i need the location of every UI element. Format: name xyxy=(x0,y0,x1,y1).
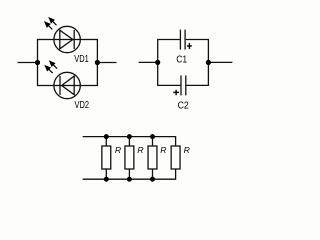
wire: LED parallel loop rectangle xyxy=(38,40,98,86)
wire: resistor bank top rail xyxy=(83,137,176,146)
LED VD2 (pointing left) xyxy=(54,72,80,98)
capacitor C2 plates xyxy=(181,75,186,95)
svg-text:R: R xyxy=(137,145,143,155)
node: LED left junction dot xyxy=(35,60,40,65)
wire: capacitor left lead xyxy=(139,61,158,63)
svg-text:VD2: VD2 xyxy=(75,100,90,111)
svg-text:C1: C1 xyxy=(176,54,187,65)
wire: LED left lead xyxy=(18,62,38,64)
resistor R2 xyxy=(125,137,134,180)
resistor R4 xyxy=(171,146,180,169)
svg-text:VD1: VD1 xyxy=(74,54,89,65)
LED VD2 light arrows xyxy=(45,61,57,73)
svg-text:C2: C2 xyxy=(178,100,189,111)
svg-text:R: R xyxy=(184,145,190,155)
wire: capacitor loop left/top/bottom segments xyxy=(158,40,209,86)
node: R3 top dot xyxy=(150,134,155,139)
capacitor C1 plates xyxy=(180,30,185,50)
C1 polarity plus xyxy=(187,43,192,49)
node: capacitor left junction dot xyxy=(155,60,160,65)
node: R2 bottom dot xyxy=(127,177,132,182)
wire: resistor bank bottom rail xyxy=(83,169,176,179)
wire: capacitor right lead xyxy=(208,61,232,63)
svg-text:R: R xyxy=(115,145,121,155)
node: R3 bottom dot xyxy=(150,177,155,182)
node: capacitor right junction dot xyxy=(206,60,211,65)
wire: LED right lead xyxy=(97,62,116,64)
svg-text:R: R xyxy=(160,145,166,155)
node: R1 bottom dot xyxy=(104,177,109,182)
node: LED right junction dot xyxy=(95,60,100,65)
node: R2 top dot xyxy=(127,134,132,139)
resistor R1 xyxy=(102,137,111,180)
resistor R3 xyxy=(148,137,157,180)
C2 polarity plus xyxy=(173,90,179,95)
LED VD1 (pointing right) xyxy=(54,26,80,52)
LED VD1 light arrows xyxy=(45,18,56,29)
node: R1 top dot xyxy=(104,134,109,139)
